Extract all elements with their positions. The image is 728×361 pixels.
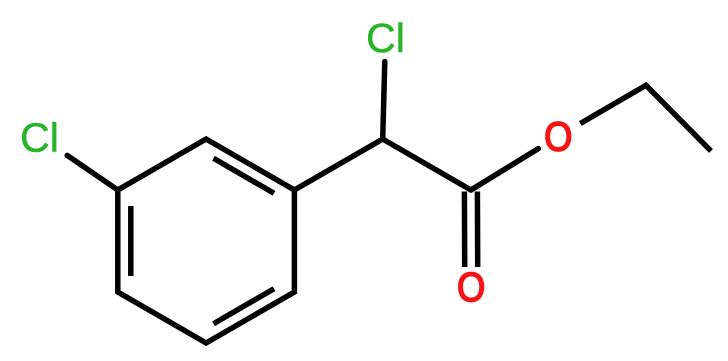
C=O double bond line (left) [462,192,468,268]
svg-text:Cl: Cl [366,15,405,61]
svg-text:O: O [544,114,572,160]
bonds O-CH2 and CH2-CH3 (ethyl group) [580,85,711,151]
bond CHalpha-Cl (to top Cl label) [383,62,385,140]
ring inner double-bond line C1=C2 [214,158,275,193]
C=O double bond line (right) [475,192,481,268]
svg-text:O: O [457,265,485,311]
svg-text:Cl: Cl [20,115,59,161]
ring inner double-bond line C5=C6 [214,289,275,324]
bond C4-Cl (ring to left Cl label) [67,155,118,190]
ring inner double-bond line C3=C4 [128,206,134,276]
bond C(=O)-O (to ether O label) [471,149,538,190]
chain bonds C1-CHalpha and CHalpha-C(=O) [294,139,471,190]
benzene ring outline (C1-C2-C3-C4-C5-C6) [118,139,295,343]
